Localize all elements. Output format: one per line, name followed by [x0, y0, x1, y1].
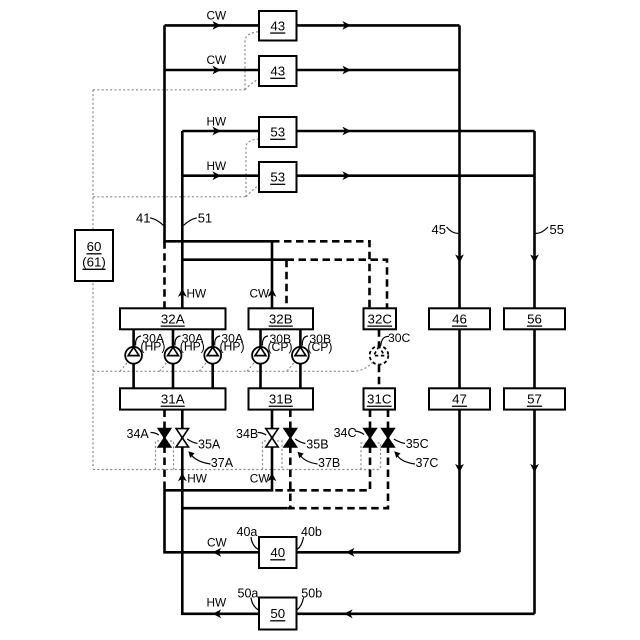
svg-text:CW: CW: [207, 535, 228, 549]
svg-text:46: 46: [452, 311, 467, 326]
svg-text:47: 47: [452, 392, 467, 407]
svg-text:CW: CW: [207, 53, 228, 67]
svg-text:CW: CW: [250, 471, 271, 485]
svg-text:CW: CW: [207, 8, 228, 22]
svg-text:53: 53: [270, 125, 285, 140]
svg-text:51: 51: [198, 210, 212, 225]
svg-text:40a: 40a: [237, 525, 258, 539]
svg-text:50b: 50b: [301, 586, 322, 600]
svg-text:56: 56: [527, 311, 542, 326]
svg-text:35A: 35A: [198, 437, 221, 451]
svg-text:(HP): (HP): [220, 340, 245, 354]
svg-text:34A: 34A: [127, 427, 150, 441]
svg-text:34C: 34C: [334, 426, 357, 440]
svg-text:HW: HW: [207, 159, 228, 173]
svg-text:41: 41: [136, 210, 150, 225]
svg-text:(61): (61): [82, 255, 106, 270]
svg-text:31A: 31A: [161, 392, 185, 407]
svg-text:30C: 30C: [388, 331, 411, 345]
svg-text:50: 50: [270, 606, 285, 621]
svg-text:CW: CW: [250, 286, 271, 300]
svg-text:43: 43: [270, 64, 285, 79]
svg-text:HW: HW: [207, 115, 228, 129]
svg-text:(CP): (CP): [307, 340, 332, 354]
svg-text:32C: 32C: [368, 311, 393, 326]
svg-text:HW: HW: [187, 286, 208, 300]
svg-text:53: 53: [270, 170, 285, 185]
svg-text:45: 45: [432, 222, 446, 237]
svg-text:55: 55: [550, 222, 564, 237]
svg-text:50a: 50a: [238, 586, 259, 600]
svg-text:35B: 35B: [306, 437, 328, 451]
svg-text:31B: 31B: [269, 392, 293, 407]
svg-text:37B: 37B: [318, 456, 340, 470]
svg-text:HW: HW: [207, 595, 228, 609]
svg-text:37C: 37C: [416, 456, 439, 470]
svg-text:(HP): (HP): [180, 340, 205, 354]
svg-text:43: 43: [270, 18, 285, 33]
svg-text:(HP): (HP): [140, 340, 165, 354]
svg-text:40b: 40b: [301, 525, 322, 539]
svg-text:40: 40: [270, 545, 285, 560]
svg-text:37A: 37A: [211, 456, 234, 470]
svg-text:31C: 31C: [367, 392, 392, 407]
svg-text:60: 60: [87, 239, 102, 254]
svg-text:34B: 34B: [236, 427, 258, 441]
svg-text:57: 57: [527, 392, 542, 407]
svg-text:32A: 32A: [161, 311, 185, 326]
svg-text:35C: 35C: [406, 437, 429, 451]
svg-text:HW: HW: [187, 471, 208, 485]
svg-text:32B: 32B: [269, 311, 293, 326]
svg-text:(CP): (CP): [268, 340, 293, 354]
